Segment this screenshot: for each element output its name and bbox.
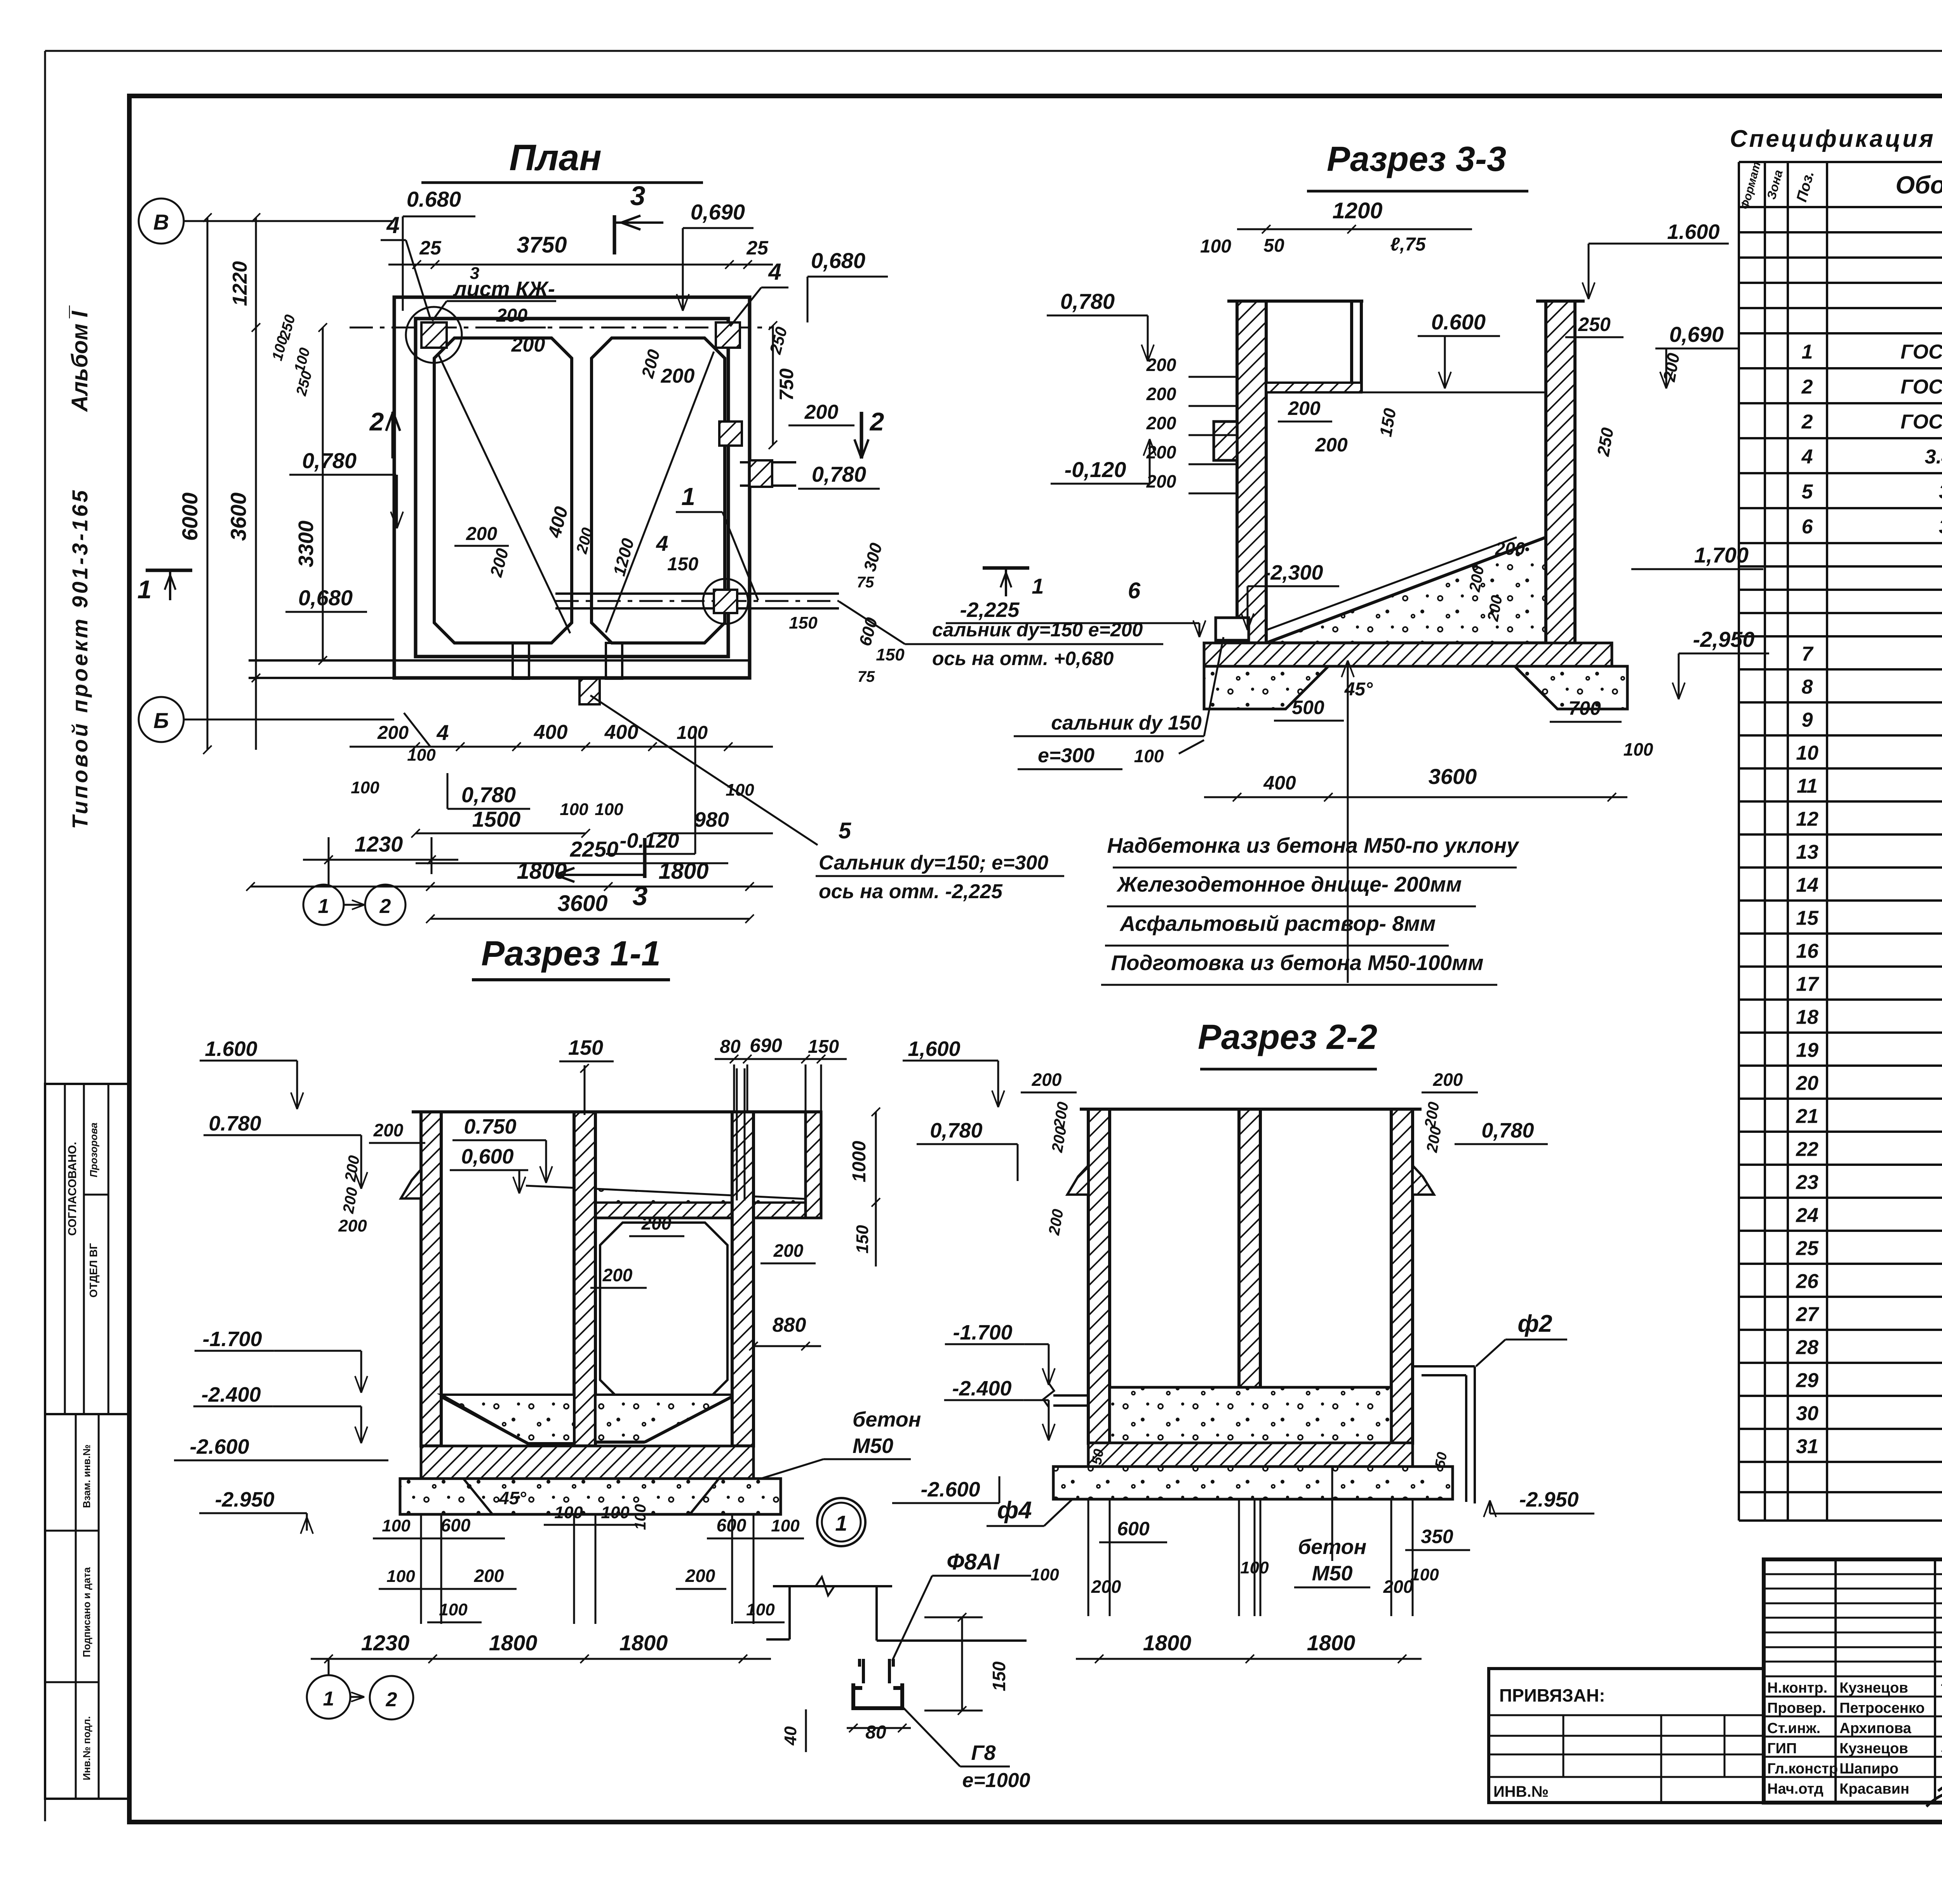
svg-text:880: 880 [773, 1314, 806, 1336]
svg-text:1.600: 1.600 [205, 1037, 257, 1061]
svg-text:3.901-5: 3.901-5 [1939, 481, 1942, 503]
svg-text:Ф8АI: Ф8АI [947, 1549, 1000, 1575]
svg-text:0,780: 0,780 [461, 782, 516, 807]
svg-text:25: 25 [1796, 1237, 1819, 1260]
plan dim vertical 3600 [255, 350, 257, 750]
plan right dims 750 250 [772, 326, 774, 445]
svg-text:2: 2 [869, 407, 884, 436]
svg-text:бетон: бетон [853, 1408, 921, 1431]
s22 concrete fill band [1110, 1387, 1391, 1443]
svg-text:200: 200 [1315, 434, 1348, 456]
svg-text:200: 200 [1146, 384, 1176, 404]
plan centerline top wall [350, 327, 773, 329]
svg-text:1230: 1230 [361, 1631, 410, 1655]
svg-text:17: 17 [1796, 973, 1819, 996]
svg-text:100: 100 [1134, 746, 1164, 766]
plan pipe stub right [740, 461, 796, 463]
svg-text:3: 3 [630, 181, 646, 211]
svg-text:3600: 3600 [1429, 764, 1477, 789]
svg-text:200: 200 [1146, 355, 1176, 375]
svg-text:200: 200 [474, 1566, 504, 1586]
svg-text:15: 15 [1796, 907, 1819, 930]
svg-text:4: 4 [386, 212, 399, 238]
s22 bottom slab hatched [1088, 1443, 1413, 1467]
plan pipe across right chamber [555, 592, 839, 595]
svg-text:3.901-5: 3.901-5 [1939, 516, 1942, 538]
svg-text:200: 200 [338, 1216, 367, 1235]
plan bottom gland [579, 679, 600, 704]
svg-text:М50: М50 [1312, 1562, 1352, 1585]
s22 top rim line [1080, 1108, 1422, 1111]
svg-text:2: 2 [379, 895, 391, 918]
left stamp box upper [45, 1084, 128, 1414]
s33 sloped fill [1266, 537, 1546, 643]
svg-text:ПРИВЯЗАН:: ПРИВЯЗАН: [1499, 1685, 1605, 1705]
svg-text:1,700: 1,700 [1694, 543, 1749, 567]
svg-text:50: 50 [1088, 1448, 1107, 1466]
svg-text:100: 100 [746, 1600, 775, 1619]
svg-text:Г8: Г8 [971, 1741, 995, 1765]
svg-text:100: 100 [726, 780, 754, 800]
svg-text:-2,300: -2,300 [1263, 561, 1323, 584]
svg-text:980: 980 [694, 808, 729, 831]
svg-text:-1.700: -1.700 [202, 1327, 262, 1351]
s11 detail circle 1 [817, 1498, 865, 1546]
s22 bottom dim verticals [1088, 1500, 1089, 1616]
svg-text:200: 200 [1495, 538, 1525, 559]
s11 axis circles [307, 1675, 350, 1719]
svg-text:1000: 1000 [849, 1141, 870, 1182]
svg-text:Разрез 3-3: Разрез 3-3 [1327, 140, 1506, 179]
svg-text:е=300: е=300 [1038, 744, 1095, 767]
title block signatures scribble [1926, 1677, 1942, 1812]
svg-text:Гл.констр: Гл.констр [1767, 1761, 1838, 1777]
s11 foundation band stippled [400, 1479, 781, 1514]
svg-text:22: 22 [1796, 1138, 1818, 1161]
svg-text:ℓ,75: ℓ,75 [1390, 234, 1426, 255]
svg-text:Взам. инв.№: Взам. инв.№ [81, 1444, 92, 1508]
svg-text:1: 1 [137, 575, 152, 604]
svg-text:100: 100 [601, 1503, 630, 1522]
svg-text:200: 200 [373, 1120, 404, 1140]
svg-text:200: 200 [1146, 413, 1176, 433]
svg-text:Асфальтовый раствор- 8мм: Асфальтовый раствор- 8мм [1119, 911, 1436, 935]
s11 bottom chain [311, 1658, 771, 1660]
svg-text:28: 28 [1796, 1336, 1818, 1359]
svg-text:5: 5 [1802, 481, 1813, 503]
svg-text:1: 1 [1802, 341, 1813, 363]
svg-text:0,780: 0,780 [812, 462, 866, 486]
svg-text:100: 100 [407, 746, 436, 765]
svg-text:8: 8 [1802, 676, 1813, 699]
svg-text:0,780: 0,780 [1060, 289, 1115, 314]
svg-text:700: 700 [1568, 697, 1601, 719]
svg-text:Петросенко: Петросенко [1839, 1700, 1925, 1716]
svg-text:сальник dy=150 е=200: сальник dy=150 е=200 [932, 619, 1143, 641]
svg-text:2250: 2250 [570, 837, 619, 861]
svg-text:0,680: 0,680 [811, 248, 865, 273]
s11 right chamber wall hatched [732, 1112, 753, 1446]
svg-text:Прозорова: Прозорова [88, 1123, 99, 1178]
channel detail sketch break line [773, 1585, 892, 1587]
plan dim vertical 6000 [207, 218, 209, 750]
s11 fill left chamber [441, 1395, 574, 1444]
svg-text:3600: 3600 [226, 493, 251, 541]
s33 mark T1 [983, 566, 1029, 570]
svg-text:19: 19 [1796, 1039, 1818, 1062]
svg-text:25: 25 [746, 237, 769, 259]
svg-text:Разрез 2-2: Разрез 2-2 [1198, 1018, 1377, 1057]
svg-text:150: 150 [568, 1036, 603, 1059]
plan dim vertical 1220 [255, 218, 257, 350]
plan dim vertical 3300 [322, 327, 324, 660]
svg-text:е=1000: е=1000 [962, 1769, 1030, 1792]
s33 top rim line [1227, 300, 1363, 303]
s33 dim 1200 top [1237, 228, 1472, 230]
plan inner wall line [416, 319, 728, 657]
svg-text:1800: 1800 [619, 1631, 668, 1655]
svg-text:7: 7 [1802, 643, 1814, 665]
svg-text:1: 1 [1032, 574, 1044, 598]
svg-text:100: 100 [439, 1600, 468, 1619]
svg-text:сальник dy 150: сальник dy 150 [1051, 712, 1202, 734]
svg-text:200: 200 [804, 401, 839, 423]
svg-text:200: 200 [377, 723, 409, 743]
plan axes circles 1 2 bottom [303, 885, 344, 925]
plan outer wall [394, 297, 750, 678]
svg-text:1500: 1500 [472, 807, 521, 831]
svg-text:200: 200 [1383, 1577, 1413, 1597]
svg-text:690: 690 [750, 1035, 782, 1056]
svg-text:100: 100 [632, 1504, 649, 1530]
s11 nadbetonka wedge [595, 1189, 821, 1202]
plan dim chain 1800 1800 [251, 886, 773, 888]
svg-text:100: 100 [771, 1516, 800, 1535]
svg-text:200: 200 [1433, 1070, 1463, 1090]
svg-text:0.750: 0.750 [464, 1115, 516, 1138]
svg-text:ГОСТ 23279-78: ГОСТ 23279-78 [1900, 411, 1942, 433]
svg-text:0,600: 0,600 [461, 1145, 513, 1168]
plan leader diagonal left chamber [439, 355, 570, 633]
svg-text:200: 200 [1091, 1577, 1121, 1597]
plan embedded plate right wall [719, 422, 742, 446]
channel C8 bar hooks [860, 1659, 893, 1683]
svg-text:100: 100 [560, 800, 588, 819]
svg-text:Разрез 1-1: Разрез 1-1 [481, 934, 661, 973]
svg-text:-2.950: -2.950 [1519, 1488, 1578, 1511]
svg-text:10: 10 [1796, 742, 1818, 765]
svg-text:2: 2 [369, 407, 384, 436]
svg-text:ось на отм. +0,680: ось на отм. +0,680 [932, 648, 1114, 669]
svg-text:-1.700: -1.700 [953, 1321, 1012, 1344]
svg-text:200: 200 [641, 1213, 672, 1233]
svg-text:200: 200 [685, 1566, 715, 1586]
svg-text:2: 2 [386, 1688, 397, 1711]
svg-text:1800: 1800 [489, 1631, 538, 1655]
svg-text:Ст.инж.: Ст.инж. [1767, 1720, 1820, 1737]
svg-text:200: 200 [773, 1240, 804, 1261]
svg-text:100: 100 [1410, 1565, 1439, 1584]
svg-text:80: 80 [720, 1036, 741, 1057]
svg-text:14: 14 [1796, 874, 1818, 897]
svg-text:200: 200 [661, 365, 695, 387]
s11 outer right wall hatched [806, 1112, 821, 1218]
s22 bottom chain [1076, 1658, 1422, 1660]
s33 trough floor hatched [1266, 383, 1361, 392]
s11 cover slab hatched right [595, 1202, 821, 1218]
title block staff rows [1764, 1676, 1942, 1678]
svg-text:100: 100 [386, 1567, 415, 1586]
spec table grid [1739, 162, 1942, 1521]
svg-text:Обозначение: Обозначение [1895, 171, 1942, 199]
svg-text:ф4: ф4 [997, 1497, 1032, 1524]
plan embedded plate top-right [716, 322, 740, 348]
svg-text:11: 11 [1797, 775, 1818, 798]
svg-text:9: 9 [1802, 709, 1813, 732]
svg-text:200: 200 [511, 334, 545, 356]
svg-text:350: 350 [1421, 1526, 1453, 1547]
svg-text:1230: 1230 [355, 832, 403, 856]
svg-text:Нач.отд: Нач.отд [1767, 1781, 1824, 1797]
svg-text:Сальник dy=150; е=300: Сальник dy=150; е=300 [819, 852, 1048, 874]
svg-text:3.400-6/76: 3.400-6/76 [1925, 446, 1942, 468]
s11 left wall hatched [421, 1112, 441, 1446]
svg-text:0.600: 0.600 [1431, 310, 1486, 334]
svg-text:25: 25 [419, 237, 442, 259]
svg-text:Спецификация элемента монолитн: Спецификация элемента монолитной констру… [1730, 125, 1942, 152]
svg-text:1: 1 [835, 1511, 847, 1535]
svg-text:1: 1 [323, 1688, 334, 1710]
sheet edge line left [44, 51, 46, 1821]
svg-text:Подготовка из бетона М50-100мм: Подготовка из бетона М50-100мм [1111, 951, 1483, 975]
svg-text:6: 6 [1802, 516, 1813, 538]
svg-text:200: 200 [1288, 397, 1321, 419]
s33 left wall hatched [1237, 301, 1266, 643]
svg-text:ГОСТ 23279-78: ГОСТ 23279-78 [1900, 341, 1942, 363]
svg-text:0,780: 0,780 [302, 448, 357, 473]
svg-text:Железодетонное днище- 200мм: Железодетонное днище- 200мм [1116, 872, 1462, 896]
svg-text:Красавин: Красавин [1839, 1781, 1909, 1797]
svg-text:ГИП: ГИП [1767, 1740, 1797, 1757]
s11 bottom dim verticals [420, 1515, 422, 1624]
svg-text:400: 400 [534, 721, 568, 744]
svg-text:1: 1 [681, 483, 695, 510]
privyazan box [1489, 1669, 1764, 1803]
s11 foundation chamfer right [690, 1479, 719, 1514]
svg-text:Б: Б [153, 708, 169, 733]
svg-text:100: 100 [677, 723, 708, 743]
title block outer [1764, 1559, 1942, 1803]
svg-text:100: 100 [1030, 1565, 1059, 1584]
svg-text:ось на отм. -2,225: ось на отм. -2,225 [819, 880, 1003, 903]
svg-text:45°: 45° [499, 1488, 526, 1508]
svg-text:80: 80 [865, 1722, 886, 1743]
svg-text:27: 27 [1796, 1303, 1819, 1326]
plan bottom channel lines [249, 659, 750, 662]
svg-text:1: 1 [318, 895, 329, 918]
svg-text:24: 24 [1796, 1204, 1818, 1227]
s11 pipe through cover [736, 1068, 738, 1200]
s33 trough wall [1350, 301, 1353, 392]
svg-text:лист КЖ-: лист КЖ- [452, 277, 555, 301]
svg-text:0.680: 0.680 [407, 187, 461, 211]
s11 left wall chamfer notch [401, 1169, 421, 1198]
svg-text:-0,120: -0,120 [1065, 457, 1126, 482]
s11 fill right chamber [595, 1395, 732, 1442]
s33 level line 0600 [1361, 392, 1546, 394]
svg-text:26: 26 [1796, 1270, 1819, 1293]
plan axis circle V [139, 199, 184, 244]
svg-text:Кузнецов: Кузнецов [1839, 1740, 1908, 1757]
plan right chamber [592, 338, 725, 643]
svg-text:6: 6 [1128, 578, 1141, 603]
svg-text:План: План [509, 137, 602, 178]
s22 right wall hatched [1391, 1109, 1413, 1443]
svg-text:100: 100 [595, 800, 623, 819]
svg-text:150: 150 [808, 1036, 839, 1057]
svg-text:30: 30 [1796, 1402, 1818, 1425]
s11 top rim line [412, 1110, 821, 1113]
svg-text:75: 75 [857, 574, 874, 591]
s33 bottom slab hatched [1204, 643, 1612, 666]
s22 left wall hatched [1088, 1109, 1110, 1443]
svg-text:3750: 3750 [517, 232, 567, 258]
svg-text:250: 250 [1578, 314, 1611, 335]
svg-text:0.780: 0.780 [209, 1112, 261, 1135]
plan left chamber [434, 338, 572, 643]
svg-text:20: 20 [1796, 1072, 1818, 1095]
svg-text:150: 150 [853, 1225, 872, 1254]
svg-text:ГОСТ 23279-78: ГОСТ 23279-78 [1900, 376, 1942, 398]
svg-text:-2,950: -2,950 [1693, 627, 1755, 652]
plan bottom dim line [350, 746, 773, 748]
plan embedded plate top-left [421, 322, 447, 348]
svg-text:21: 21 [1796, 1105, 1818, 1128]
s33 bottom dim chain [1204, 796, 1627, 798]
s33 gland in left wall [1216, 618, 1249, 640]
svg-text:-2.400: -2.400 [201, 1383, 261, 1406]
svg-text:200: 200 [496, 305, 527, 326]
svg-text:Подписано и дата: Подписано и дата [81, 1567, 92, 1657]
svg-text:100: 100 [1624, 739, 1653, 760]
svg-text:2: 2 [1801, 411, 1813, 433]
svg-text:3600: 3600 [557, 891, 607, 916]
channel detail step profile [788, 1586, 791, 1639]
svg-text:-2.600: -2.600 [921, 1478, 980, 1501]
svg-text:3: 3 [633, 881, 648, 911]
svg-text:Надбетонка из бетона М50-по ук: Надбетонка из бетона М50-по уклону [1107, 833, 1519, 857]
svg-text:0,780: 0,780 [930, 1119, 982, 1142]
svg-text:3: 3 [470, 264, 479, 283]
s11 foundation chamfer left [463, 1479, 492, 1514]
svg-text:100: 100 [554, 1503, 583, 1522]
plan axis circle B [139, 697, 184, 742]
s22 pipe left stub [1053, 1394, 1088, 1397]
svg-text:Провер.: Провер. [1767, 1700, 1826, 1716]
plan bottom anchor left [513, 643, 529, 679]
svg-text:0,690: 0,690 [691, 200, 745, 224]
plan section mark 3 bottom [643, 838, 647, 878]
svg-text:0,680: 0,680 [298, 585, 353, 610]
s22 pipe right [1413, 1365, 1475, 1367]
sheet edge line top [45, 50, 1942, 52]
svg-text:200: 200 [602, 1265, 633, 1285]
svg-text:150: 150 [667, 554, 698, 575]
svg-text:12: 12 [1796, 808, 1818, 831]
svg-text:500: 500 [1292, 697, 1324, 718]
svg-text:600: 600 [1117, 1518, 1150, 1540]
svg-text:1800: 1800 [1143, 1631, 1192, 1655]
s22 right wall chamfer notch [1413, 1165, 1434, 1195]
svg-text:Шапиро: Шапиро [1839, 1761, 1898, 1777]
s33 left wall console [1214, 422, 1237, 460]
svg-text:750: 750 [776, 368, 797, 401]
svg-text:75: 75 [858, 668, 875, 685]
svg-text:100: 100 [382, 1516, 411, 1535]
svg-text:150: 150 [876, 645, 905, 664]
svg-text:31: 31 [1796, 1435, 1818, 1458]
svg-text:0,690: 0,690 [1669, 322, 1724, 347]
svg-text:29: 29 [1796, 1369, 1818, 1392]
svg-text:ф2: ф2 [1517, 1310, 1552, 1337]
s33 foundation pad left [1204, 666, 1328, 709]
svg-text:-2.950: -2.950 [215, 1488, 274, 1511]
svg-text:4: 4 [436, 720, 449, 745]
svg-text:13: 13 [1796, 841, 1818, 864]
s22 subslab stip band [1053, 1467, 1453, 1499]
plan leader diagonal right chamber [606, 352, 714, 632]
svg-text:4: 4 [656, 531, 668, 556]
svg-text:4: 4 [1801, 446, 1813, 468]
svg-text:50: 50 [1263, 235, 1284, 256]
svg-text:1.600: 1.600 [1667, 220, 1719, 244]
svg-text:1220: 1220 [229, 261, 251, 306]
svg-text:3300: 3300 [294, 521, 318, 567]
svg-text:Кузнецов: Кузнецов [1839, 1680, 1908, 1696]
svg-text:40: 40 [781, 1726, 800, 1745]
svg-text:2: 2 [1801, 376, 1813, 398]
svg-text:0,780: 0,780 [1481, 1119, 1534, 1142]
plan centerline pipe [555, 600, 839, 602]
svg-text:-2.600: -2.600 [190, 1435, 249, 1458]
svg-text:1800: 1800 [517, 859, 567, 884]
s22 center wall hatched [1239, 1109, 1260, 1443]
s11 center wall hatched [574, 1112, 595, 1446]
svg-text:5: 5 [839, 818, 851, 843]
s11 right chamber opening [600, 1223, 727, 1402]
svg-text:ИНВ.№: ИНВ.№ [1493, 1783, 1549, 1800]
svg-text:1800: 1800 [658, 859, 708, 884]
svg-text:Типовой проект 901-3-165: Типовой проект 901-3-165 [68, 488, 92, 829]
plan dim chain 25 3750 25 [388, 264, 773, 266]
svg-text:150: 150 [789, 613, 818, 632]
s33 notes leader [1347, 660, 1349, 983]
svg-text:В: В [153, 210, 169, 234]
svg-text:23: 23 [1796, 1171, 1818, 1194]
s33 right wall hatched [1546, 301, 1575, 657]
s11 dim 1000 right [875, 1112, 877, 1202]
plan bottom anchor right [606, 643, 622, 679]
svg-text:Альбом I̅: Альбом I̅ [67, 305, 92, 412]
svg-text:СОГЛАСОВАНО.: СОГЛАСОВАНО. [66, 1142, 79, 1236]
s33 foundation pad right [1515, 666, 1627, 709]
svg-text:100: 100 [1200, 236, 1231, 257]
svg-text:1200: 1200 [1332, 198, 1382, 223]
svg-text:Н.контр.: Н.контр. [1767, 1680, 1827, 1696]
svg-text:18: 18 [1796, 1006, 1818, 1029]
svg-text:6000: 6000 [177, 493, 202, 541]
svg-text:-2.400: -2.400 [952, 1377, 1011, 1400]
